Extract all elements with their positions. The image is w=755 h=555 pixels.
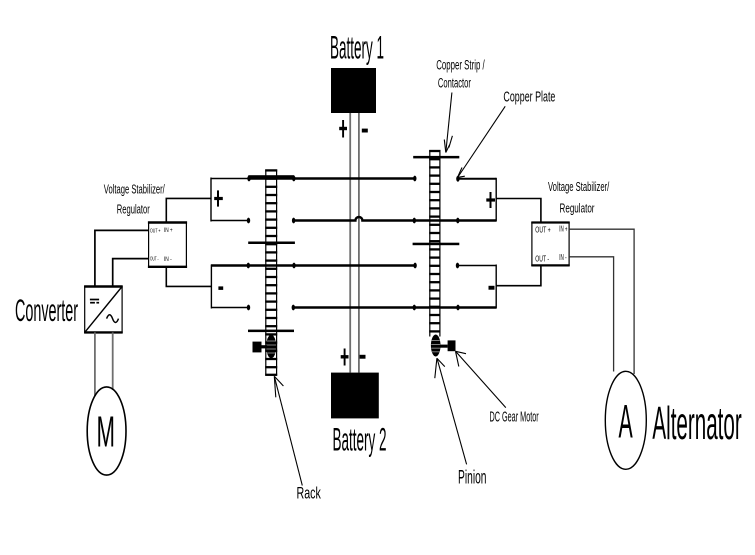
svg-text:M: M [97,408,116,457]
wire U1 OUT- to converter [113,259,149,287]
wire bus L2 left segment [211,220,248,222]
converter AC sine symbol [107,315,119,323]
wire battery positive vertical [349,113,351,373]
svg-text:A: A [619,396,633,449]
junction dots on L3 [247,263,460,269]
svg-text:Copper Plate: Copper Plate [503,90,555,106]
battery B2 plus terminal label [341,349,349,366]
pinion P2 (right) [431,335,441,357]
svg-text:Copper Strip /: Copper Strip / [436,58,485,73]
rack 1 (left) [265,170,277,376]
wire bus L1 left segment [248,177,415,179]
svg-text:IN -: IN - [559,253,567,262]
voltage stabilizer U1 (left) box [148,223,187,267]
DC gear motor M2 (left) [253,342,268,353]
svg-text:Converter: Converter [15,292,78,328]
alternator G1 circle [605,371,646,469]
DC gear motor M3 (right) [440,340,456,351]
svg-text:Battery 2: Battery 2 [333,422,387,458]
svg-text:Contactor: Contactor [438,76,471,91]
wire U1 IN- to minus bracket [166,267,211,287]
copper strip S4 on rack 2 [413,156,459,159]
converter X1 box [84,287,123,333]
svg-text:Voltage Stabilizer/: Voltage Stabilizer/ [548,179,609,194]
wire U2 IN+ to alternator [569,229,634,374]
arrow from DC Gear Motor label to gear motor M3 [456,351,506,407]
junction dots on L2 [247,218,460,224]
svg-text:OUT -: OUT - [535,254,549,263]
wire battery negative vertical [358,113,360,373]
wire U2 IN- to alternator [569,257,614,372]
copper strip S3 on rack 1 [248,330,294,333]
junction dots on L1 [247,176,459,182]
battery B2 minus terminal label [360,355,366,359]
wire bus L4 right segment [293,306,496,308]
battery B2 body [331,373,379,419]
svg-text:Rack: Rack [297,483,322,502]
svg-text:Regulator: Regulator [560,200,595,215]
terminal bracket minus right [489,265,497,309]
terminal bracket minus left [211,265,223,309]
wire U1 OUT+ to converter [95,230,149,286]
arrow from Pinion label to pinion P2 [435,358,467,464]
svg-text:IN -: IN - [164,256,172,263]
wire bus L1 right segment [458,178,496,180]
wire U2 OUT- to minus bracket [496,265,541,285]
terminal bracket plus left [211,178,249,222]
rack 2 (right) [429,150,440,336]
wire bus L4 left segment [211,307,248,309]
svg-text:Battery 1: Battery 1 [330,30,384,66]
wire bus L2 right segment with hop over battery wire [293,217,496,220]
junction dots on L4 [247,305,460,311]
terminal bracket plus right [486,178,496,222]
wire U1 IN+ to plus bracket [166,198,210,222]
pinion P1 (left) [266,335,276,359]
battery B1 body [331,68,376,113]
wire bus L3 left segment [211,264,415,266]
svg-text:IN +: IN + [164,227,173,234]
wire converter to motor right [112,332,114,390]
svg-text:Alternator: Alternator [652,397,741,449]
arrow from Contactor label to copper strip S4 [444,93,452,153]
wire bus L3 right segment [457,265,496,267]
copper strip S2 on rack 1 [248,242,295,245]
wire U2 OUT+ to plus bracket [496,199,541,223]
converter DC symbol [90,300,99,303]
svg-text:OUT -: OUT - [150,257,159,263]
svg-text:Voltage Stabilizer/: Voltage Stabilizer/ [104,182,165,197]
arrow from Copper Plate label to L1 contact plate [458,106,506,177]
arrow from Rack label to rack 1 bottom [274,376,302,485]
copper strip S1 on rack 1 [248,175,294,178]
svg-text:OUT +: OUT + [150,229,161,235]
battery B1 minus terminal label [362,129,368,133]
svg-text:DC Gear Motor: DC Gear Motor [490,409,539,425]
svg-text:Pinion: Pinion [458,467,487,489]
voltage stabilizer U2 (right) box [531,223,569,266]
motor M1 circle [87,387,126,475]
battery B1 plus terminal label [339,120,347,138]
wire converter to motor left [94,332,96,396]
svg-text:OUT +: OUT + [535,225,551,234]
svg-text:Regulator: Regulator [117,201,150,216]
copper strip S5 on rack 2 [413,243,460,246]
svg-text:IN +: IN + [559,225,567,234]
